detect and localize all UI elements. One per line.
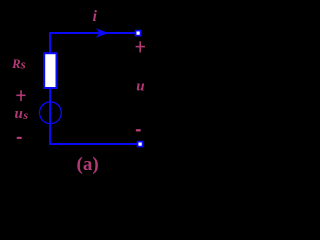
terminal node top [136, 31, 141, 36]
label + (source) [16, 90, 25, 101]
svg-text:i: i [93, 8, 98, 25]
voltage source us [40, 102, 62, 124]
wire bottom horizontal [49, 143, 137, 145]
svg-text:(a): (a) [77, 154, 99, 175]
current arrow [96, 28, 109, 37]
label - (source) [17, 137, 22, 139]
wire left vertical [49, 32, 51, 144]
resistor Rs [44, 53, 56, 88]
svg-text:Rs: Rs [11, 56, 26, 72]
label - (port) [136, 129, 141, 131]
wire top horizontal [49, 32, 135, 34]
terminal node bottom [138, 142, 143, 147]
svg-text:us: us [15, 106, 29, 122]
svg-text:u: u [136, 79, 144, 95]
label + (port) [136, 41, 145, 52]
